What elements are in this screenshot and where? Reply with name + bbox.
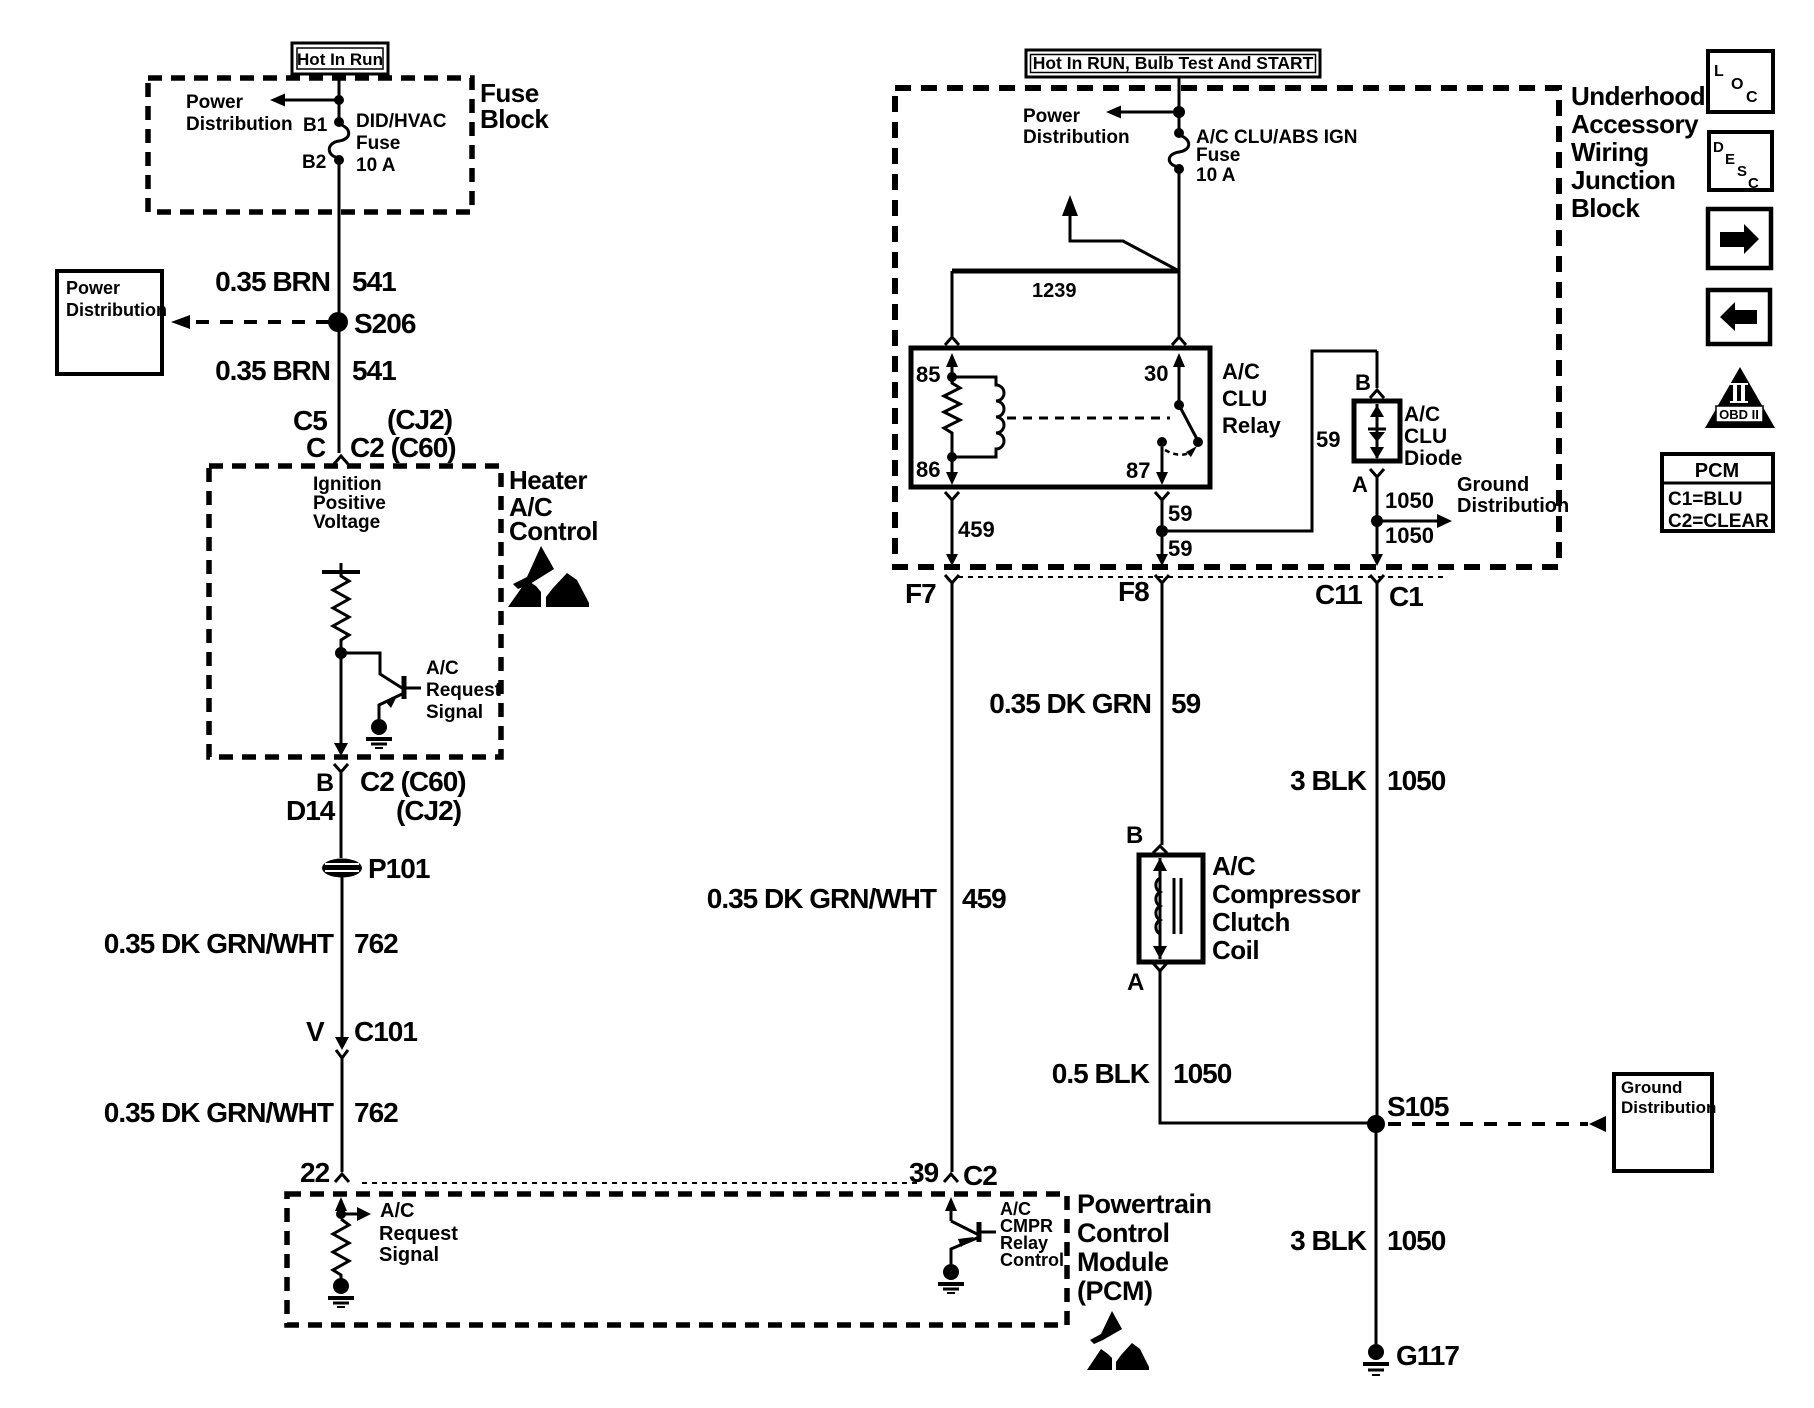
svg-text:Control: Control xyxy=(1077,1218,1169,1248)
wire dashed to ground distribution xyxy=(1388,1116,1606,1132)
wire 541 segment xyxy=(338,160,341,453)
svg-text:459: 459 xyxy=(958,517,995,542)
svg-text:Heater: Heater xyxy=(509,465,587,495)
node connector pin A (diode) xyxy=(1352,469,1384,521)
ground (heater emitter) xyxy=(366,719,392,748)
wire 3 BLK 1050 upper xyxy=(1290,583,1446,1116)
svg-text:Relay: Relay xyxy=(1222,413,1281,438)
wire 762 upper xyxy=(104,877,398,1037)
node connector pins 39 C2 xyxy=(909,1157,997,1191)
node relay output cups xyxy=(945,492,1169,500)
wire 59 down to F8 xyxy=(1156,531,1192,566)
wire dashed relay actuation link xyxy=(1007,417,1170,420)
svg-text:C1: C1 xyxy=(1389,581,1423,612)
svg-text:B1: B1 xyxy=(303,115,328,136)
svg-text:CLU: CLU xyxy=(1404,425,1447,448)
svg-text:87: 87 xyxy=(1126,458,1150,483)
wire relay 87 output xyxy=(1156,447,1168,485)
svg-text:Accessory: Accessory xyxy=(1571,109,1699,139)
node DESC icon xyxy=(1709,132,1772,192)
svg-text:762: 762 xyxy=(354,1097,398,1128)
wire PCM input arrow (pin 39) xyxy=(945,1197,957,1221)
svg-text:Module: Module xyxy=(1077,1247,1169,1277)
svg-text:39: 39 xyxy=(909,1157,939,1188)
node Hot In Run supply tag xyxy=(292,43,388,74)
relay K1 pin arrows xyxy=(946,353,1185,404)
svg-text:B: B xyxy=(1126,822,1143,849)
node Hot In RUN Bulb Test And START supply tag xyxy=(1026,50,1320,77)
svg-text:Distribution: Distribution xyxy=(1457,495,1569,517)
svg-text:A/C: A/C xyxy=(380,1200,414,1222)
svg-text:Junction: Junction xyxy=(1571,165,1675,195)
fuse block enclosure xyxy=(148,78,472,212)
node connector pin B (diode) xyxy=(1355,351,1384,398)
svg-text:Ignition: Ignition xyxy=(313,474,382,495)
node relay coil junctions xyxy=(947,372,957,462)
wire supply to junction block xyxy=(1178,77,1181,133)
svg-text:A/C: A/C xyxy=(1212,851,1256,881)
svg-text:P101: P101 xyxy=(368,853,430,884)
wire dashed to S206 xyxy=(171,315,331,329)
Powertrain Control Module title xyxy=(1077,1189,1212,1306)
svg-text:C: C xyxy=(1748,175,1759,192)
node connector C5/C C2(C60)(CJ2) xyxy=(293,404,456,464)
relay K1 coil xyxy=(952,377,1004,457)
resistor R1 (heater pull-up) xyxy=(333,572,349,648)
svg-text:59: 59 xyxy=(1168,536,1192,561)
svg-text:59: 59 xyxy=(1168,501,1192,526)
svg-text:Fuse: Fuse xyxy=(1196,145,1240,166)
wire 3 BLK 1050 lower xyxy=(1290,1133,1446,1344)
svg-text:Underhood: Underhood xyxy=(1571,81,1705,111)
svg-text:A/C: A/C xyxy=(1222,359,1260,384)
node ignition voltage bar xyxy=(322,563,360,572)
relay K1 pin labels xyxy=(916,361,1168,483)
svg-text:10 A: 10 A xyxy=(356,155,396,176)
wire heater output to arrow xyxy=(334,653,348,756)
svg-text:C1=BLU: C1=BLU xyxy=(1668,489,1742,510)
ground (PCM resistor) xyxy=(328,1278,354,1307)
node A/C Request Signal label (PCM) xyxy=(379,1200,458,1266)
node S105 splice xyxy=(1367,1091,1449,1133)
wire 1050 ground distribution branch xyxy=(1371,474,1569,528)
svg-text:A/C: A/C xyxy=(1404,403,1440,426)
node S206 splice xyxy=(328,308,416,339)
node Power Distribution label (fuse block) xyxy=(186,92,293,135)
svg-text:Clutch: Clutch xyxy=(1212,907,1290,937)
node Ignition Positive Voltage label xyxy=(313,474,386,533)
svg-text:Compressor: Compressor xyxy=(1212,879,1361,909)
wire 1239 drop to relay pin 85 xyxy=(951,271,954,336)
svg-text:Hot In RUN, Bulb Test And STAR: Hot In RUN, Bulb Test And START xyxy=(1033,53,1314,73)
wire 59 to compressor clutch xyxy=(989,583,1200,845)
svg-text:541: 541 xyxy=(352,266,396,297)
svg-text:1050: 1050 xyxy=(1387,765,1446,796)
svg-text:0.35 DK GRN/WHT: 0.35 DK GRN/WHT xyxy=(707,883,937,914)
wire 59 to diode xyxy=(1162,351,1377,531)
node junction heater xyxy=(335,647,347,659)
svg-text:Signal: Signal xyxy=(426,702,483,723)
Underhood block title xyxy=(1571,81,1705,223)
wire to P101 xyxy=(340,772,343,858)
svg-text:0.5 BLK: 0.5 BLK xyxy=(1052,1058,1150,1089)
wire branch up-arrow feed xyxy=(1062,195,1179,271)
svg-text:Distribution: Distribution xyxy=(186,114,293,135)
wire 1050 down to C1 xyxy=(1371,521,1434,566)
node power distribution branch (junction block) xyxy=(1023,106,1185,149)
svg-text:Block: Block xyxy=(480,104,549,134)
svg-text:B: B xyxy=(316,769,334,797)
wire Hot In Run to fuse block xyxy=(338,74,341,122)
svg-text:Distribution: Distribution xyxy=(66,300,167,320)
svg-text:Positive: Positive xyxy=(313,493,386,514)
fuse F1 value label xyxy=(356,111,447,176)
coil L1 title xyxy=(1212,851,1361,965)
node OBD II icon xyxy=(1705,367,1775,428)
svg-text:C: C xyxy=(1746,89,1758,106)
fuse F2 value label xyxy=(1196,127,1358,186)
node connector V C101 xyxy=(306,1016,417,1058)
svg-text:Ground: Ground xyxy=(1457,474,1529,496)
svg-text:Distribution: Distribution xyxy=(1621,1098,1716,1117)
svg-text:C2 (C60): C2 (C60) xyxy=(350,432,456,463)
svg-text:B: B xyxy=(1355,370,1371,395)
Heater A/C Control title xyxy=(509,465,598,546)
transistor Q2 A/C CMPR relay control xyxy=(951,1221,996,1264)
node junction A/C request (PCM) xyxy=(336,1207,371,1221)
svg-text:A: A xyxy=(1352,472,1368,497)
wire 459 inside junction block xyxy=(946,500,995,566)
node connector pin A (coil) xyxy=(1127,963,1167,996)
node Ground Distribution box xyxy=(1614,1074,1716,1171)
resistor R3 (relay suppression) xyxy=(944,377,960,457)
svg-text:S: S xyxy=(1737,163,1747,180)
svg-text:D: D xyxy=(1713,139,1724,156)
svg-text:1239: 1239 xyxy=(1032,280,1077,302)
wire 59 from relay 87 xyxy=(1162,500,1192,531)
wire label 0.35 BRN 541 lower xyxy=(215,355,396,386)
node splice 59 xyxy=(1156,525,1168,537)
svg-text:22: 22 xyxy=(300,1157,330,1188)
svg-text:L: L xyxy=(1714,63,1724,80)
Underhood junction block enclosure xyxy=(895,88,1559,567)
svg-text:Coil: Coil xyxy=(1212,935,1259,965)
svg-text:F7: F7 xyxy=(905,578,936,609)
fuse F2 A/C CLU/ABS IGN xyxy=(1169,128,1189,174)
wire 0.5 BLK 1050 xyxy=(1052,971,1370,1123)
svg-text:Powertrain: Powertrain xyxy=(1077,1189,1212,1219)
transistor Q1 A/C request xyxy=(341,653,421,719)
svg-text:59: 59 xyxy=(1171,688,1201,719)
fuse block title xyxy=(480,78,549,134)
wire relay 86 output arrow xyxy=(946,457,958,485)
ESD symbol (heater) xyxy=(508,546,589,607)
svg-text:59: 59 xyxy=(1316,427,1340,452)
node PCM connector legend xyxy=(1662,454,1773,532)
svg-text:0.35 BRN: 0.35 BRN xyxy=(215,266,330,297)
node junction B1 feed xyxy=(334,95,344,105)
svg-text:Signal: Signal xyxy=(379,1244,439,1266)
node relay input cups xyxy=(945,337,1186,345)
Heater A/C Control enclosure xyxy=(209,466,501,757)
svg-text:(CJ2): (CJ2) xyxy=(387,404,452,435)
svg-text:C11: C11 xyxy=(1315,579,1362,610)
svg-text:85: 85 xyxy=(916,362,940,387)
svg-text:S206: S206 xyxy=(354,308,416,339)
wire dotted PCM connector line xyxy=(362,1182,922,1184)
svg-text:3 BLK: 3 BLK xyxy=(1290,1225,1367,1256)
svg-text:DID/HVAC: DID/HVAC xyxy=(356,111,447,132)
wire fuse to relay pin 30 xyxy=(1178,169,1181,336)
ground (PCM transistor) xyxy=(938,1264,964,1293)
svg-text:O: O xyxy=(1731,76,1743,93)
node connector labels F7 F8 C11 C1 xyxy=(905,576,1423,612)
relay K1 title xyxy=(1222,359,1281,438)
PCM enclosure xyxy=(287,1194,1067,1325)
diode D1 title xyxy=(1404,403,1462,470)
svg-text:Power: Power xyxy=(66,278,120,298)
ESD symbol (PCM) xyxy=(1087,1311,1149,1370)
svg-text:C2=CLEAR: C2=CLEAR xyxy=(1668,511,1769,532)
wire power distribution branch xyxy=(270,94,339,107)
diode D1 A/C CLU xyxy=(1354,401,1400,461)
svg-text:Request: Request xyxy=(379,1223,458,1245)
node P101 grommet xyxy=(322,853,430,884)
node LOC icon xyxy=(1708,51,1773,112)
svg-text:E: E xyxy=(1725,151,1735,168)
svg-text:Voltage: Voltage xyxy=(313,512,380,533)
svg-text:OBD II: OBD II xyxy=(1719,407,1759,422)
svg-text:Request: Request xyxy=(426,680,502,701)
svg-text:CLU: CLU xyxy=(1222,386,1267,411)
svg-text:86: 86 xyxy=(916,457,940,482)
svg-text:C101: C101 xyxy=(354,1016,417,1047)
svg-text:Power: Power xyxy=(186,92,244,113)
svg-text:(CJ2): (CJ2) xyxy=(396,795,461,826)
svg-text:0.35 DK GRN/WHT: 0.35 DK GRN/WHT xyxy=(104,1097,334,1128)
wire dotted connector row line xyxy=(958,576,1443,578)
wire PCM input arrow (pin 22) xyxy=(335,1197,347,1214)
node Power Distribution box (left) xyxy=(57,271,167,374)
svg-text:0.35 DK GRN: 0.35 DK GRN xyxy=(989,688,1151,719)
fuse F1 DID/HVAC pins B1 B2 xyxy=(302,115,349,173)
svg-text:459: 459 xyxy=(962,883,1006,914)
node forward arrow icon xyxy=(1708,209,1771,268)
svg-text:0.35 DK GRN/WHT: 0.35 DK GRN/WHT xyxy=(104,928,334,959)
svg-text:V: V xyxy=(306,1016,325,1047)
node back arrow icon xyxy=(1708,290,1770,344)
svg-text:C2: C2 xyxy=(963,1160,997,1191)
svg-text:S105: S105 xyxy=(1387,1091,1449,1122)
relay K1 switch xyxy=(1157,400,1203,457)
wire label 0.35 BRN 541 upper xyxy=(215,266,396,297)
svg-text:1050: 1050 xyxy=(1385,523,1434,548)
resistor R2 (PCM request) xyxy=(333,1219,349,1278)
svg-text:1050: 1050 xyxy=(1173,1058,1232,1089)
svg-text:F8: F8 xyxy=(1118,576,1149,607)
svg-text:A: A xyxy=(1127,969,1144,996)
svg-text:D14: D14 xyxy=(286,795,336,826)
node connector pin 22 xyxy=(300,1157,349,1188)
svg-text:(PCM): (PCM) xyxy=(1077,1276,1152,1306)
svg-text:Fuse: Fuse xyxy=(356,133,400,154)
svg-text:G117: G117 xyxy=(1396,1340,1459,1371)
svg-text:1050: 1050 xyxy=(1385,488,1434,513)
svg-text:Power: Power xyxy=(1023,106,1081,127)
svg-text:30: 30 xyxy=(1144,361,1168,386)
node connector pin B (coil) xyxy=(1126,822,1167,853)
svg-text:Wiring: Wiring xyxy=(1571,137,1649,167)
relay K1 A/C CLU enclosure xyxy=(911,348,1210,487)
svg-text:762: 762 xyxy=(354,928,398,959)
svg-text:3 BLK: 3 BLK xyxy=(1290,765,1367,796)
wire 762 lower xyxy=(104,1058,398,1172)
svg-text:PCM: PCM xyxy=(1695,460,1739,482)
wire 459 to PCM xyxy=(707,583,1006,1172)
svg-text:Hot In Run: Hot In Run xyxy=(297,50,383,69)
svg-text:1050: 1050 xyxy=(1387,1225,1446,1256)
svg-text:Control: Control xyxy=(509,516,598,546)
svg-text:C: C xyxy=(306,432,326,463)
ground G117 xyxy=(1363,1340,1459,1375)
A/C compressor clutch coil L1 xyxy=(1139,855,1203,962)
svg-text:0.35 BRN: 0.35 BRN xyxy=(215,355,330,386)
node A/C Request Signal label (heater) xyxy=(426,658,502,723)
node A/C CMPR Relay Control label xyxy=(1000,1199,1064,1270)
svg-text:541: 541 xyxy=(352,355,396,386)
svg-text:Control: Control xyxy=(1000,1250,1064,1270)
node connector cups F7 F8 C1 xyxy=(945,575,1384,583)
wire 1239 xyxy=(952,271,1180,302)
svg-text:Diode: Diode xyxy=(1404,447,1462,470)
svg-text:Distribution: Distribution xyxy=(1023,127,1130,148)
svg-text:Ground: Ground xyxy=(1621,1078,1682,1097)
svg-text:10 A: 10 A xyxy=(1196,165,1236,186)
svg-text:Block: Block xyxy=(1571,193,1640,223)
svg-text:B2: B2 xyxy=(302,152,326,173)
svg-text:C2 (C60): C2 (C60) xyxy=(360,766,466,797)
svg-text:A/C: A/C xyxy=(426,658,459,679)
node connector B C2(C60) D14(CJ2) xyxy=(286,764,466,826)
